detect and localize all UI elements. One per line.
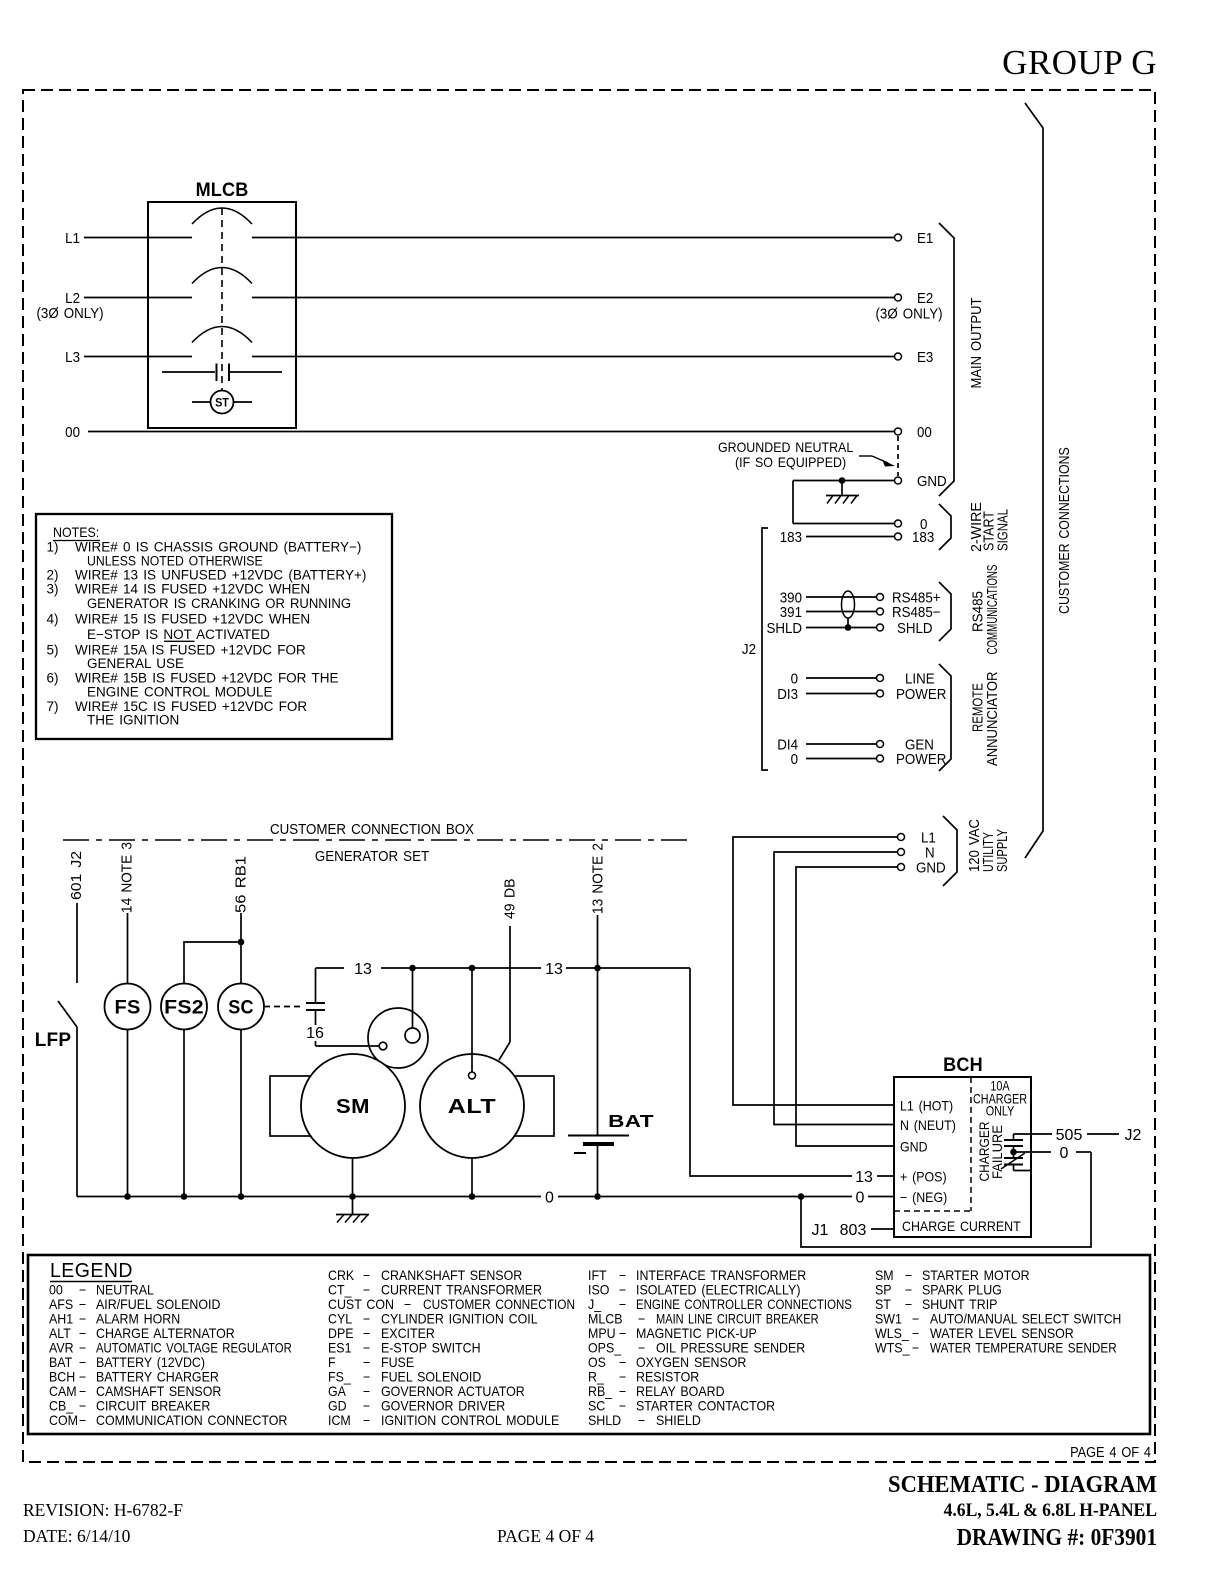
- svg-text:3): 3): [47, 582, 59, 597]
- battery BAT symbol: [568, 1135, 629, 1137]
- wire 13 to ALT field: [471, 968, 473, 1072]
- svg-text:DI3: DI3: [777, 685, 798, 702]
- junction charger failure: [1010, 1149, 1017, 1156]
- svg-text:ICM: ICM: [328, 1413, 351, 1429]
- connector J2 bracket: [762, 528, 768, 770]
- svg-text:GA: GA: [328, 1384, 346, 1400]
- divider customer connection box / generator set: [63, 839, 688, 841]
- svg-text:1): 1): [47, 539, 59, 554]
- wire FS2 up tap: [184, 942, 241, 984]
- terminal 00: [895, 428, 902, 435]
- svg-text:−: −: [363, 1355, 370, 1371]
- junction BCH return bus: [798, 1193, 805, 1200]
- svg-text:WLS_: WLS_: [875, 1326, 910, 1342]
- svg-text:00: 00: [49, 1282, 63, 1298]
- svg-text:0: 0: [791, 670, 799, 687]
- svg-text:WIRE# 15 IS FUSED +12VDC WHEN: WIRE# 15 IS FUSED +12VDC WHEN: [75, 611, 310, 626]
- svg-text:REVISION: H-6782-F: REVISION: H-6782-F: [23, 1500, 183, 1520]
- svg-text:183: 183: [912, 528, 934, 545]
- wire 49 DB: [509, 926, 511, 1042]
- svg-text:E−STOP IS NOT ACTIVATED: E−STOP IS NOT ACTIVATED: [87, 627, 270, 642]
- svg-text:PAGE 4 OF 4: PAGE 4 OF 4: [497, 1526, 594, 1546]
- svg-text:CAM: CAM: [49, 1384, 77, 1400]
- svg-text:RESISTOR: RESISTOR: [636, 1369, 699, 1385]
- wire L3 to E3: [252, 356, 894, 358]
- fuel solenoid FS2 circle: [161, 984, 207, 1030]
- svg-text:BATTERY (12VDC): BATTERY (12VDC): [96, 1355, 205, 1371]
- wire 13 bus: [316, 967, 345, 969]
- svg-text:−: −: [79, 1282, 86, 1298]
- svg-text:E1: E1: [917, 229, 934, 246]
- svg-text:−: −: [363, 1413, 370, 1429]
- wire L1 to E1: [252, 237, 894, 239]
- svg-text:L1: L1: [65, 229, 80, 246]
- svg-text:−: −: [912, 1340, 919, 1356]
- svg-text:DATE: 6/14/10: DATE: 6/14/10: [23, 1526, 131, 1546]
- twisted pair ellipse: [842, 591, 855, 618]
- svg-text:−: −: [79, 1413, 86, 1429]
- svg-text:SHLD: SHLD: [897, 619, 933, 636]
- wire 601 J2: [76, 903, 78, 983]
- svg-text:CYLINDER IGNITION COIL: CYLINDER IGNITION COIL: [381, 1311, 538, 1327]
- svg-text:601 J2: 601 J2: [69, 851, 85, 900]
- brace 2-wire start signal: [939, 504, 951, 550]
- svg-text:ANNUNCIATOR: ANNUNCIATOR: [984, 672, 1000, 766]
- svg-text:R_: R_: [588, 1369, 605, 1385]
- svg-text:MAGNETIC PICK-UP: MAGNETIC PICK-UP: [636, 1326, 757, 1342]
- svg-text:MLCB: MLCB: [196, 179, 249, 201]
- svg-text:ST: ST: [215, 397, 229, 410]
- bracket customer connections: [1025, 103, 1043, 858]
- wire 0 ground bus: [77, 1196, 541, 1198]
- svg-text:GD: GD: [328, 1398, 347, 1414]
- svg-text:GENERATOR IS CRANKING OR RUNNI: GENERATOR IS CRANKING OR RUNNING: [87, 596, 351, 611]
- svg-text:5): 5): [47, 642, 59, 657]
- svg-text:WATER TEMPERATURE SENDER: WATER TEMPERATURE SENDER: [930, 1341, 1117, 1356]
- svg-text:16: 16: [306, 1025, 324, 1042]
- legend box: [28, 1255, 1150, 1434]
- svg-text:STARTER MOTOR: STARTER MOTOR: [922, 1268, 1030, 1284]
- fuel solenoid FS circle: [105, 984, 151, 1030]
- terminal N utility: [898, 849, 905, 856]
- junction SM bus: [349, 1193, 356, 1200]
- svg-text:POWER: POWER: [896, 750, 946, 767]
- svg-text:SHLD: SHLD: [766, 619, 802, 636]
- svg-text:THE IGNITION: THE IGNITION: [87, 713, 179, 728]
- svg-text:EXCITER: EXCITER: [381, 1326, 435, 1342]
- svg-text:E3: E3: [917, 348, 934, 365]
- svg-text:−: −: [912, 1311, 919, 1327]
- svg-text:J2: J2: [742, 640, 756, 657]
- wire utility L1 to BCH: [733, 837, 897, 1105]
- junction 56 tap: [238, 939, 245, 946]
- svg-text:SHIELD: SHIELD: [656, 1413, 701, 1429]
- wire 183: [806, 536, 894, 538]
- svg-text:SC: SC: [588, 1398, 605, 1414]
- wire 390: [806, 596, 877, 598]
- shunt trip coil ST leads: [192, 401, 211, 403]
- svg-text:−: −: [79, 1384, 86, 1400]
- brace main output: [939, 223, 954, 496]
- svg-text:RELAY BOARD: RELAY BOARD: [636, 1384, 725, 1400]
- svg-text:CUSTOMER CONNECTIONS: CUSTOMER CONNECTIONS: [1056, 447, 1072, 614]
- svg-text:ST: ST: [875, 1297, 891, 1313]
- svg-text:AIR/FUEL SOLENOID: AIR/FUEL SOLENOID: [96, 1297, 220, 1313]
- svg-text:0: 0: [856, 1190, 865, 1207]
- svg-text:AVR: AVR: [49, 1340, 74, 1356]
- svg-text:−: −: [905, 1297, 912, 1313]
- terminal L1 utility: [898, 834, 905, 841]
- svg-text:E2: E2: [917, 289, 934, 306]
- svg-text:−: −: [363, 1369, 370, 1385]
- svg-text:WIRE# 13 IS UNFUSED +12VDC (BA: WIRE# 13 IS UNFUSED +12VDC (BATTERY+): [75, 568, 366, 583]
- breaker pole 2 arc: [192, 268, 252, 284]
- svg-text:RB_: RB_: [588, 1384, 613, 1400]
- breaker pole 1 arc: [192, 208, 252, 224]
- svg-text:CB_: CB_: [49, 1398, 74, 1414]
- shunt trip contact bars: [216, 364, 218, 382]
- svg-text:391: 391: [780, 603, 802, 620]
- terminal GEN: [877, 741, 884, 748]
- svg-text:L1 (HOT): L1 (HOT): [900, 1098, 953, 1114]
- grounded neutral dashed link: [897, 436, 899, 476]
- svg-text:CRK: CRK: [328, 1268, 355, 1284]
- wire DI4: [806, 743, 877, 745]
- ground symbol SM: [336, 1214, 369, 1216]
- wire 0 charger failure return: [1014, 1151, 1052, 1153]
- svg-text:REMOTE: REMOTE: [969, 683, 986, 732]
- svg-text:−: −: [79, 1311, 86, 1327]
- BCH internal dashed divider: [970, 1077, 972, 1211]
- svg-text:SC: SC: [228, 996, 253, 1018]
- svg-text:E-STOP SWITCH: E-STOP SWITCH: [381, 1340, 481, 1356]
- svg-text:4): 4): [47, 611, 59, 626]
- svg-text:ES1: ES1: [328, 1340, 351, 1356]
- switch LFP blade: [58, 1001, 77, 1027]
- SC contact bars: [306, 1002, 325, 1004]
- alternator bracket: [472, 1076, 554, 1136]
- wire L2 to E2: [252, 297, 894, 299]
- svg-text:BCH: BCH: [49, 1369, 75, 1385]
- svg-text:FS2: FS2: [164, 997, 204, 1018]
- svg-text:SM: SM: [336, 1096, 370, 1118]
- bendix outer circle: [368, 1008, 428, 1068]
- breaker MLCB box: [148, 202, 296, 428]
- junction 13 bat: [594, 965, 601, 972]
- brace 120 VAC utility supply: [943, 816, 957, 886]
- wire battery to bus: [597, 1146, 599, 1197]
- chassis ground symbol: [841, 481, 843, 495]
- svg-text:−: −: [638, 1413, 645, 1429]
- svg-text:+ (POS): + (POS): [900, 1169, 947, 1185]
- svg-text:0: 0: [1060, 1145, 1069, 1162]
- shunt trip coil ST circle: [211, 391, 234, 414]
- brace RS485: [939, 582, 951, 641]
- wire DI3: [806, 693, 877, 695]
- svg-text:WTS_: WTS_: [875, 1340, 910, 1356]
- shunt trip contact right lead: [230, 371, 282, 373]
- wire FS to bus: [127, 1030, 129, 1197]
- svg-text:−: −: [619, 1326, 626, 1342]
- svg-text:CRANKSHAFT SENSOR: CRANKSHAFT SENSOR: [381, 1268, 522, 1284]
- svg-text:DPE: DPE: [328, 1326, 354, 1342]
- wire SC to bus: [240, 1030, 242, 1197]
- notes box: [36, 514, 392, 739]
- svg-text:DRAWING #: 0F3901: DRAWING #: 0F3901: [957, 1524, 1157, 1550]
- bendix wire 16 terminal circle: [369, 1045, 379, 1047]
- svg-text:0: 0: [791, 750, 799, 767]
- svg-text:−: −: [638, 1311, 645, 1327]
- wire GND down to 0 terminal: [792, 481, 794, 524]
- svg-text:SW1: SW1: [875, 1311, 902, 1327]
- svg-text:J1: J1: [812, 1222, 829, 1239]
- wire utility GND to BCH: [796, 867, 897, 1146]
- svg-text:2): 2): [47, 568, 59, 583]
- svg-text:CHARGE CURRENT: CHARGE CURRENT: [902, 1219, 1021, 1235]
- svg-text:FS_: FS_: [328, 1369, 352, 1385]
- svg-text:−: −: [619, 1297, 626, 1313]
- svg-text:IFT: IFT: [588, 1268, 607, 1284]
- svg-text:− (NEG): − (NEG): [900, 1190, 947, 1206]
- svg-text:ALT: ALT: [448, 1095, 497, 1117]
- svg-text:BATTERY CHARGER: BATTERY CHARGER: [96, 1369, 219, 1385]
- svg-text:RS485−: RS485−: [892, 603, 941, 620]
- junction 13 alt: [469, 965, 476, 972]
- svg-text:INTERFACE TRANSFORMER: INTERFACE TRANSFORMER: [636, 1268, 806, 1284]
- svg-text:GOVERNOR ACTUATOR: GOVERNOR ACTUATOR: [381, 1384, 525, 1400]
- junction ground tap: [839, 477, 846, 484]
- svg-text:SIGNAL: SIGNAL: [994, 509, 1011, 551]
- svg-text:PAGE 4 OF 4: PAGE 4 OF 4: [1070, 1444, 1151, 1460]
- svg-text:WIRE# 15B IS FUSED +12VDC FOR: WIRE# 15B IS FUSED +12VDC FOR THE: [75, 671, 338, 686]
- svg-text:−: −: [619, 1369, 626, 1385]
- svg-text:−: −: [905, 1268, 912, 1284]
- svg-text:−: −: [363, 1340, 370, 1356]
- svg-text:SP: SP: [875, 1282, 892, 1298]
- svg-text:IGNITION CONTROL MODULE: IGNITION CONTROL MODULE: [381, 1413, 560, 1429]
- svg-text:GOVERNOR DRIVER: GOVERNOR DRIVER: [381, 1398, 505, 1414]
- svg-text:−: −: [363, 1282, 370, 1298]
- svg-text:FUSE: FUSE: [381, 1355, 414, 1371]
- svg-text:WIRE# 14 IS FUSED +12VDC WHEN: WIRE# 14 IS FUSED +12VDC WHEN: [75, 582, 310, 597]
- svg-text:49 DB: 49 DB: [503, 879, 519, 919]
- svg-text:GENERATOR SET: GENERATOR SET: [315, 847, 430, 864]
- junction FS2 bus: [181, 1193, 188, 1200]
- svg-text:NEUTRAL: NEUTRAL: [96, 1282, 154, 1298]
- terminal E3: [895, 353, 902, 360]
- svg-text:SPARK PLUG: SPARK PLUG: [922, 1282, 1002, 1298]
- svg-text:803: 803: [840, 1222, 867, 1239]
- svg-text:GND: GND: [900, 1139, 928, 1155]
- wire ALT to bus: [471, 1158, 473, 1197]
- svg-text:AH1: AH1: [49, 1311, 73, 1327]
- svg-text:00: 00: [917, 423, 932, 440]
- svg-text:ENGINE CONTROL MODULE: ENGINE CONTROL MODULE: [87, 685, 273, 700]
- svg-text:−: −: [79, 1297, 86, 1313]
- wire 0 gen power: [806, 758, 877, 760]
- svg-text:4.6L, 5.4L & 6.8L H-PANEL: 4.6L, 5.4L & 6.8L H-PANEL: [944, 1500, 1157, 1521]
- svg-text:LINE: LINE: [905, 670, 935, 687]
- svg-text:−: −: [79, 1355, 86, 1371]
- wire 13 to bendix pinion: [412, 968, 414, 1028]
- junction BAT bus: [594, 1193, 601, 1200]
- svg-text:CUST CON: CUST CON: [328, 1297, 394, 1313]
- svg-text:WIRE# 15C IS FUSED +12VDC FOR: WIRE# 15C IS FUSED +12VDC FOR: [75, 699, 307, 714]
- junction SC bus: [238, 1193, 245, 1200]
- svg-text:SHLD: SHLD: [588, 1413, 621, 1429]
- svg-text:BCH: BCH: [943, 1054, 983, 1076]
- svg-text:00: 00: [65, 423, 80, 440]
- svg-text:SM: SM: [875, 1268, 894, 1284]
- breaker MLCB trip dashed linkage: [221, 208, 223, 390]
- svg-text:(3Ø ONLY): (3Ø ONLY): [875, 305, 942, 322]
- svg-text:ENGINE CONTROLLER CONNECTIONS: ENGINE CONTROLLER CONNECTIONS: [636, 1297, 852, 1312]
- svg-text:BAT: BAT: [49, 1355, 72, 1371]
- svg-text:FS: FS: [115, 997, 141, 1018]
- svg-text:CHARGE ALTERNATOR: CHARGE ALTERNATOR: [96, 1326, 235, 1342]
- charger failure contact lower NC: [1004, 1157, 1023, 1159]
- svg-text:13: 13: [354, 961, 372, 978]
- svg-text:183: 183: [780, 528, 802, 545]
- svg-text:−: −: [363, 1398, 370, 1414]
- underline NOT in note 4: [164, 640, 195, 642]
- svg-text:COM: COM: [49, 1413, 78, 1429]
- wire FS2 to bus: [183, 1030, 185, 1197]
- svg-text:ISOLATED (ELECTRICALLY): ISOLATED (ELECTRICALLY): [636, 1282, 800, 1298]
- svg-text:14 NOTE 3: 14 NOTE 3: [118, 842, 134, 913]
- svg-text:ONLY: ONLY: [986, 1103, 1015, 1118]
- svg-text:AUTO/MANUAL SELECT SWITCH: AUTO/MANUAL SELECT SWITCH: [930, 1311, 1121, 1327]
- sheet dashed border: [23, 90, 1155, 1462]
- svg-text:FUEL SOLENOID: FUEL SOLENOID: [381, 1369, 481, 1385]
- charger failure contact upper: [1013, 1134, 1015, 1140]
- svg-text:7): 7): [47, 699, 59, 714]
- shunt trip contact left lead: [162, 371, 215, 373]
- wire GND to ground: [793, 480, 894, 482]
- svg-text:0: 0: [545, 1190, 554, 1207]
- svg-text:GND: GND: [916, 859, 946, 876]
- svg-text:COMMUNICATIONS: COMMUNICATIONS: [984, 565, 1000, 655]
- starter motor SM circle: [301, 1054, 405, 1158]
- svg-text:AUTOMATIC VOLTAGE REGULATOR: AUTOMATIC VOLTAGE REGULATOR: [96, 1341, 292, 1356]
- brace remote annunciator: [939, 664, 951, 771]
- svg-text:ALT: ALT: [49, 1326, 71, 1342]
- svg-text:−: −: [79, 1326, 86, 1342]
- svg-text:GROUNDED NEUTRAL: GROUNDED NEUTRAL: [718, 440, 853, 456]
- svg-text:CT_: CT_: [328, 1282, 352, 1298]
- svg-text:−: −: [79, 1340, 86, 1356]
- svg-text:−: −: [404, 1297, 411, 1313]
- wire 13 NOTE 2: [597, 915, 599, 968]
- svg-text:BAT: BAT: [608, 1112, 654, 1131]
- terminal 0 2wire: [895, 520, 902, 527]
- svg-text:F: F: [328, 1355, 336, 1371]
- wire LFP to bus: [76, 1027, 78, 1197]
- terminal SHLD: [877, 624, 884, 631]
- svg-text:−: −: [79, 1369, 86, 1385]
- svg-text:STARTER CONTACTOR: STARTER CONTACTOR: [636, 1398, 775, 1414]
- svg-text:OS: OS: [588, 1355, 606, 1371]
- svg-text:−: −: [363, 1384, 370, 1400]
- wire SHLD: [806, 627, 877, 629]
- svg-text:WIRE# 15A IS FUSED +12VDC FOR: WIRE# 15A IS FUSED +12VDC FOR: [75, 642, 306, 657]
- svg-text:AFS: AFS: [49, 1297, 73, 1313]
- svg-text:OXYGEN SENSOR: OXYGEN SENSOR: [636, 1355, 746, 1371]
- svg-text:GND: GND: [917, 472, 947, 489]
- svg-text:J_: J_: [588, 1297, 602, 1313]
- terminal GEN POWER: [877, 755, 884, 762]
- SC mechanical dashed link: [264, 1006, 303, 1008]
- wire 0 line power: [806, 677, 877, 679]
- svg-text:13: 13: [545, 961, 563, 978]
- terminal E2: [895, 294, 902, 301]
- terminal 183: [895, 533, 902, 540]
- starter motor bracket: [270, 1076, 353, 1136]
- wire utility N to BCH: [774, 852, 897, 1125]
- terminal RS485-: [877, 608, 884, 615]
- svg-text:GROUP G: GROUP G: [1002, 43, 1157, 82]
- svg-text:MAIN LINE CIRCUIT BREAKER: MAIN LINE CIRCUIT BREAKER: [656, 1311, 819, 1326]
- terminal LINE POWER: [877, 690, 884, 697]
- alternator ALT circle: [420, 1054, 524, 1158]
- svg-text:13 NOTE 2: 13 NOTE 2: [589, 843, 605, 914]
- svg-text:SCHEMATIC - DIAGRAM: SCHEMATIC - DIAGRAM: [888, 1471, 1157, 1498]
- svg-text:CUSTOMER CONNECTION BOX: CUSTOMER CONNECTION BOX: [270, 820, 474, 837]
- starter contactor SC circle: [218, 984, 264, 1030]
- svg-text:−: −: [905, 1282, 912, 1298]
- ALT field terminal circle: [469, 1072, 476, 1079]
- svg-text:MLCB: MLCB: [588, 1311, 623, 1327]
- shield tap wire: [847, 618, 849, 628]
- wire 13 down to BCH POS: [690, 968, 852, 1176]
- junction FS bus: [124, 1193, 131, 1200]
- svg-text:LFP: LFP: [35, 1030, 72, 1051]
- terminal GND: [895, 477, 902, 484]
- wire 13 into SC contact: [315, 968, 317, 1003]
- svg-text:−: −: [79, 1398, 86, 1414]
- terminal GND utility: [898, 864, 905, 871]
- svg-text:−: −: [638, 1340, 645, 1356]
- svg-text:−: −: [619, 1384, 626, 1400]
- junction ALT bus: [469, 1193, 476, 1200]
- svg-text:LEGEND: LEGEND: [50, 1260, 133, 1283]
- svg-text:CUSTOMER CONNECTION: CUSTOMER CONNECTION: [423, 1296, 575, 1312]
- svg-text:MPU: MPU: [588, 1326, 616, 1342]
- bendix pinion circle: [405, 1028, 420, 1043]
- svg-text:13: 13: [855, 1169, 873, 1186]
- svg-text:6): 6): [47, 671, 59, 686]
- wire 391: [806, 611, 877, 613]
- svg-text:505: 505: [1056, 1127, 1083, 1144]
- svg-text:NOTES:: NOTES:: [53, 525, 99, 541]
- breaker pole 3 arc: [192, 327, 252, 343]
- wire 56 RB1: [240, 913, 242, 984]
- svg-text:56 RB1: 56 RB1: [233, 856, 249, 913]
- svg-text:L3: L3: [65, 348, 80, 365]
- svg-text:WATER LEVEL SENSOR: WATER LEVEL SENSOR: [930, 1326, 1074, 1342]
- svg-text:−: −: [619, 1282, 626, 1298]
- terminal LINE: [877, 675, 884, 682]
- svg-text:GENERAL USE: GENERAL USE: [87, 656, 184, 671]
- svg-text:−: −: [363, 1311, 370, 1327]
- junction 13 bendix: [409, 965, 416, 972]
- wire L3 left: [84, 356, 192, 358]
- svg-text:J2: J2: [1125, 1127, 1142, 1144]
- svg-text:UNLESS NOTED OTHERWISE: UNLESS NOTED OTHERWISE: [87, 553, 263, 569]
- svg-text:POWER: POWER: [896, 685, 946, 702]
- svg-text:SUPPLY: SUPPLY: [993, 829, 1010, 872]
- svg-text:−: −: [619, 1268, 626, 1284]
